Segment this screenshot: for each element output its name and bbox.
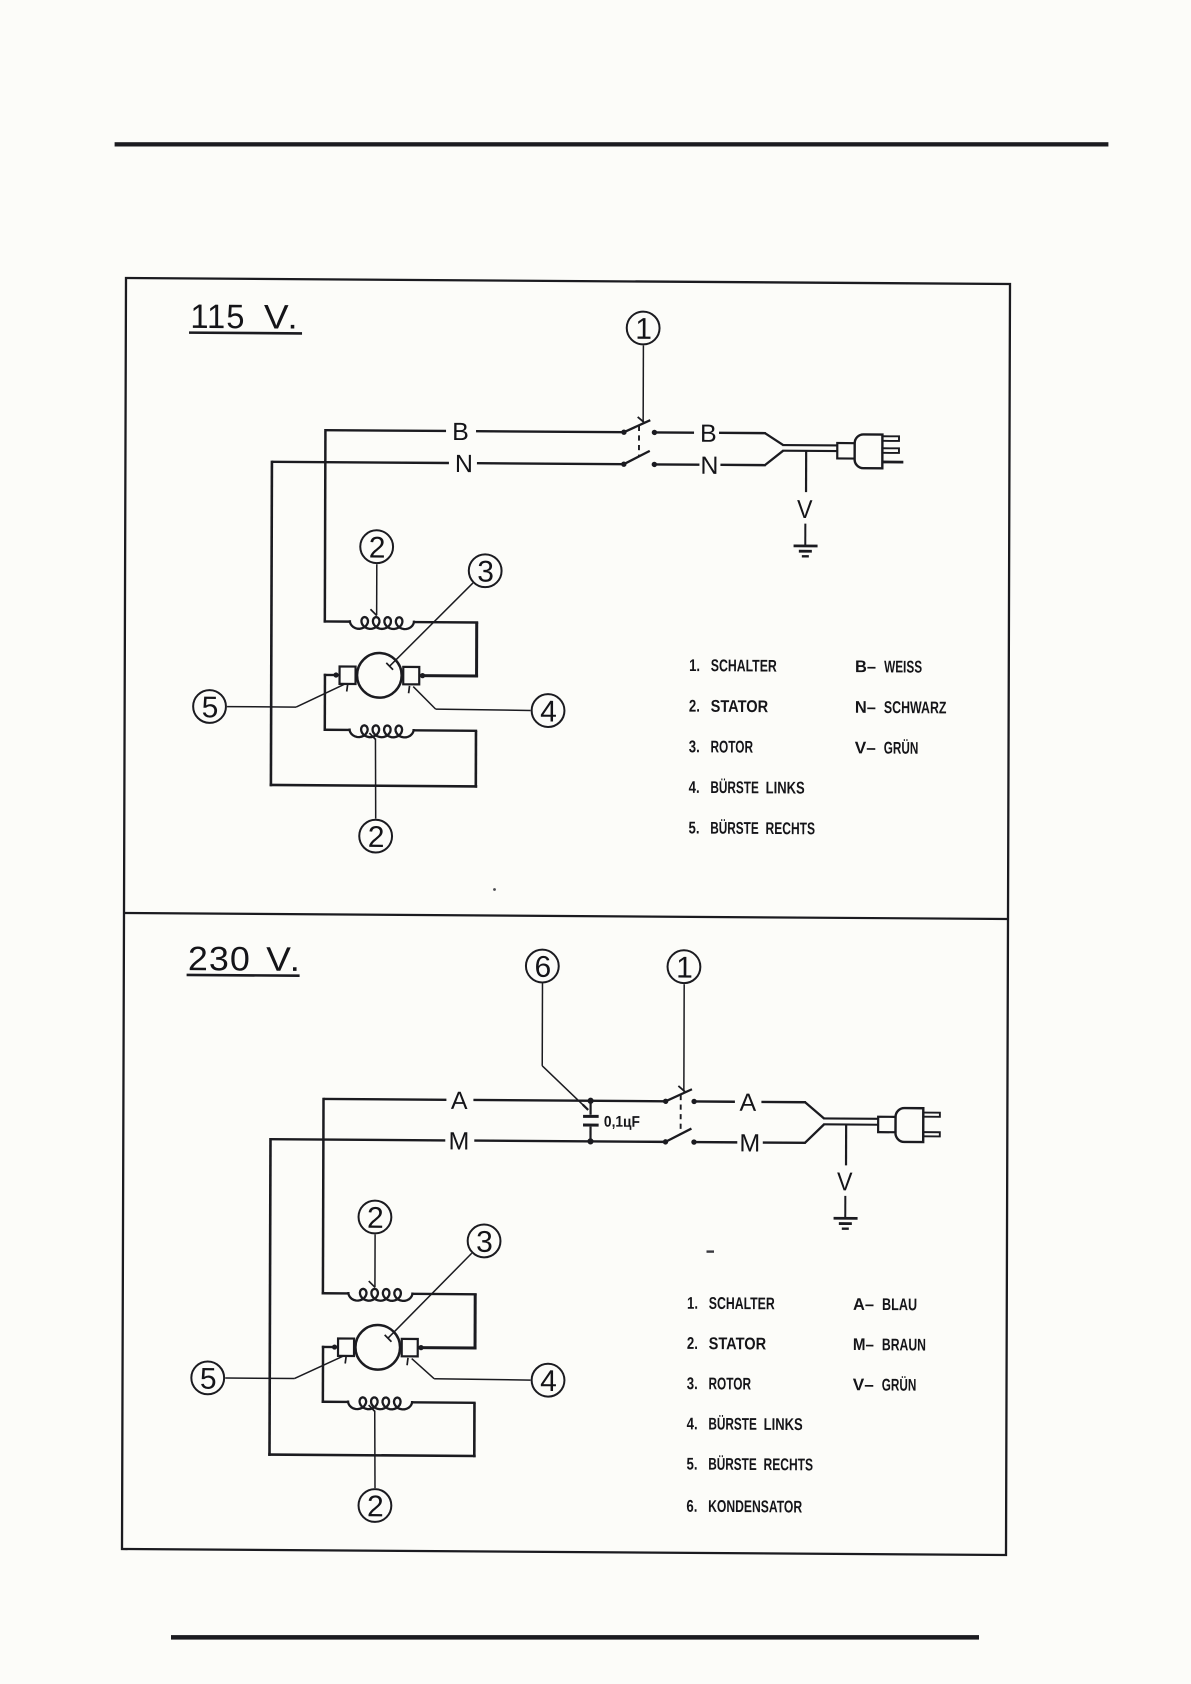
plug neck	[837, 443, 854, 459]
svg-text:N: N	[700, 452, 718, 480]
svg-text:RECHTS: RECHTS	[766, 819, 816, 838]
svg-text:2.: 2.	[689, 697, 700, 716]
right brush terminal node	[418, 1345, 423, 1350]
svg-text:4: 4	[540, 1365, 556, 1398]
brush right (4) box	[403, 667, 419, 685]
leader from callout 3 to rotor	[385, 1253, 472, 1343]
wire M row (right of switch)	[694, 1141, 737, 1144]
svg-text:2.: 2.	[687, 1334, 698, 1353]
wire bend down to cord	[765, 433, 783, 445]
svg-text:V–: V–	[855, 738, 876, 757]
svg-text:RECHTS: RECHTS	[764, 1455, 814, 1474]
svg-text:3.: 3.	[687, 1374, 698, 1393]
leader from callout 2 to lower coil	[369, 733, 376, 819]
svg-text:1.: 1.	[687, 1294, 698, 1313]
callout circle 2 (lower stator)	[359, 820, 392, 854]
mains cord (two parallel lines)	[823, 1118, 880, 1124]
capacitor C1 lead (bottom)	[589, 1127, 591, 1142]
switch S1 lower blade	[624, 451, 650, 465]
capacitor C1 plates	[583, 1115, 599, 1127]
svg-text:B–: B–	[855, 657, 876, 676]
svg-text:3: 3	[477, 555, 493, 588]
legend list (115 V.)	[689, 656, 816, 838]
svg-text:3: 3	[476, 1226, 492, 1259]
leader from callout 4 to right brush	[409, 686, 531, 711]
stator upper coil lead-out wire	[413, 621, 478, 624]
brush right (4) box	[402, 1339, 418, 1357]
svg-text:BÜRSTE: BÜRSTE	[708, 1455, 757, 1474]
switch S1 (Schalter) upper pole contacts	[621, 429, 657, 435]
wire vertical down to return wire	[473, 1403, 476, 1458]
leader from callout 2 to lower coil	[368, 1405, 375, 1488]
wire left brush to vertical	[324, 674, 340, 677]
wire vertical down to right brush	[474, 1294, 477, 1349]
scan artifact speck	[707, 1250, 715, 1252]
svg-text:6: 6	[534, 951, 550, 984]
return wire to left vertical	[270, 785, 478, 786]
leader from callout 4 to right brush	[407, 1358, 531, 1380]
wire B row (right of switch)	[654, 431, 694, 434]
svg-text:0,1цF: 0,1цF	[604, 1114, 640, 1131]
plug prong (bottom)	[923, 1132, 940, 1136]
wire bend up to cord	[805, 1124, 824, 1143]
stator winding upper coil L1	[350, 617, 414, 629]
capacitor C1 junction node on M wire	[587, 1138, 593, 1144]
svg-text:STATOR: STATOR	[709, 1334, 767, 1353]
svg-text:2: 2	[369, 531, 385, 564]
switch S1 lower pole contacts	[663, 1139, 697, 1145]
scan artifact dot	[493, 888, 496, 891]
wire N row (right of switch)	[654, 463, 699, 466]
legend wire colour codes	[855, 657, 947, 758]
callout circle 2 (lower stator)	[358, 1489, 391, 1523]
wire vertical down to right brush	[475, 622, 478, 677]
svg-text:2: 2	[368, 821, 384, 854]
title 115 V.	[189, 298, 302, 337]
callout circle 2 (upper stator)	[358, 1201, 391, 1235]
wire vertical from M row down to return	[269, 1138, 270, 1456]
callout circle 1 (Schalter)	[627, 312, 660, 346]
earth wire V drop from cord	[845, 1125, 847, 1166]
svg-text:5.: 5.	[687, 1455, 698, 1474]
svg-text:V–: V–	[853, 1375, 874, 1394]
ground symbol	[794, 546, 818, 557]
svg-text:1: 1	[635, 313, 651, 346]
brush left (5) box	[338, 1338, 354, 1356]
svg-text:B: B	[700, 420, 717, 448]
wire B row (left segment)	[325, 429, 446, 432]
callout circle 2 (upper stator)	[360, 530, 393, 564]
capacitor C1 lead (top)	[589, 1101, 591, 1115]
return wire to left vertical	[268, 1455, 476, 1456]
svg-text:N–: N–	[855, 698, 876, 717]
earth wire below V	[844, 1196, 846, 1218]
callout circle 5 (left brush)	[193, 690, 226, 724]
svg-text:BÜRSTE: BÜRSTE	[708, 1414, 757, 1433]
switch S1 upper blade	[624, 420, 650, 432]
wire vertical left brush down to stator coil 2	[324, 674, 327, 731]
svg-text:BLAU: BLAU	[882, 1295, 917, 1314]
stator winding upper (2) lead-in wire	[324, 620, 351, 623]
svg-text:5: 5	[202, 691, 218, 724]
wire A to cord	[761, 1101, 806, 1104]
wire M to cord	[763, 1141, 806, 1144]
ground symbol	[834, 1218, 858, 1229]
svg-text:WEISS: WEISS	[884, 657, 922, 676]
wire vertical from N row down to return	[271, 461, 272, 787]
wire vertical from A row down to stator coil	[322, 1098, 325, 1295]
stator winding lower coil L2	[348, 1397, 412, 1409]
wire right brush to vertical (thick)	[418, 1346, 477, 1349]
leader line from callout 1 to switch	[678, 984, 685, 1092]
svg-text:V.: V.	[266, 941, 302, 979]
svg-text:SCHALTER: SCHALTER	[709, 1294, 775, 1313]
svg-text:N: N	[455, 450, 473, 478]
svg-text:BÜRSTE: BÜRSTE	[710, 819, 759, 838]
plug prong (top)	[923, 1113, 940, 1117]
bottom horizontal rule	[171, 1635, 979, 1640]
stator lower coil lead-out wire	[413, 729, 478, 732]
svg-text:4.: 4.	[687, 1414, 698, 1433]
svg-text:M–: M–	[853, 1335, 874, 1354]
svg-text:ROTOR: ROTOR	[708, 1374, 751, 1393]
svg-text:GRÜN: GRÜN	[882, 1375, 917, 1394]
leader from callout 5 to left brush	[227, 683, 348, 707]
svg-text:6.: 6.	[686, 1497, 697, 1516]
wire N row (mid segment)	[477, 462, 624, 465]
svg-text:M: M	[739, 1129, 760, 1157]
switch S1 dashed mechanical link	[680, 1095, 682, 1134]
earth wire below V	[804, 524, 806, 546]
leader from callout 2 to upper coil	[369, 1234, 376, 1287]
svg-text:GRÜN: GRÜN	[884, 739, 919, 758]
wire M row (mid segment)	[474, 1141, 665, 1142]
left brush terminal node	[333, 672, 338, 677]
svg-text:SCHALTER: SCHALTER	[711, 656, 777, 675]
right brush terminal node	[420, 673, 425, 678]
svg-text:2: 2	[367, 1202, 383, 1235]
plug prong (top)	[882, 436, 899, 441]
leader from callout 3 to rotor	[386, 582, 473, 670]
plug neck	[878, 1117, 895, 1133]
svg-text:ROTOR: ROTOR	[711, 737, 754, 756]
svg-text:2: 2	[367, 1490, 383, 1523]
svg-text:LINKS: LINKS	[764, 1415, 803, 1434]
wire B row (mid segment)	[476, 431, 624, 432]
svg-text:A: A	[740, 1089, 757, 1117]
wire B to cord	[719, 432, 766, 435]
leader line from callout 6 to capacitor	[542, 984, 588, 1110]
legend list (230 V.)	[686, 1294, 813, 1517]
wire bend up to cord	[765, 451, 783, 466]
switch S1 lower blade	[665, 1128, 691, 1142]
wire A row (right of switch)	[694, 1100, 735, 1103]
stator winding lower coil L2	[350, 725, 414, 737]
svg-text:230: 230	[188, 940, 251, 978]
capacitor C1 junction node on A wire	[588, 1098, 594, 1104]
callout circle 6 (Kondensator)	[526, 950, 559, 984]
stator lower coil lead-out wire	[411, 1401, 476, 1404]
leader from callout 2 to upper coil	[370, 564, 377, 615]
callout circle 1 (Schalter)	[667, 950, 700, 984]
svg-text:B: B	[452, 418, 469, 446]
svg-text:KONDENSATOR: KONDENSATOR	[708, 1497, 802, 1517]
svg-text:4.: 4.	[689, 778, 700, 797]
drawing frame border	[122, 278, 1010, 1555]
svg-text:4: 4	[540, 695, 556, 728]
svg-text:1: 1	[676, 951, 692, 984]
wire vertical down to return wire	[475, 731, 478, 788]
left brush terminal node	[332, 1344, 337, 1349]
svg-text:LINKS: LINKS	[766, 778, 805, 797]
stator winding upper coil L1	[348, 1289, 412, 1301]
svg-text:STATOR: STATOR	[711, 697, 769, 716]
wire A row (left segment)	[324, 1098, 447, 1101]
switch S1 dashed mechanical link	[638, 426, 640, 457]
wire vertical left brush down to stator coil 2	[322, 1346, 325, 1403]
svg-text:5: 5	[200, 1363, 216, 1396]
leader from callout 5 to left brush	[225, 1355, 346, 1379]
earth wire V drop from cord	[805, 451, 807, 492]
plug body	[895, 1108, 923, 1142]
svg-text:BÜRSTE: BÜRSTE	[710, 778, 759, 797]
title 230 V.	[187, 940, 303, 979]
rotor (3) armature circle	[355, 1325, 400, 1370]
switch S1 upper blade	[666, 1089, 692, 1101]
callout circle 4 (right brush)	[532, 1364, 565, 1398]
switch S1 (Schalter) upper pole contacts	[663, 1099, 697, 1105]
top horizontal rule	[115, 142, 1109, 146]
stator winding lower (2) lead-in wire	[322, 1401, 349, 1404]
svg-text:V.: V.	[264, 298, 300, 336]
stator winding lower (2) lead-in wire	[324, 729, 351, 732]
wire A row (mid segment)	[473, 1100, 665, 1101]
svg-text:3.: 3.	[689, 737, 700, 756]
svg-text:A–: A–	[853, 1295, 874, 1314]
callout circle 3 (rotor)	[469, 554, 502, 588]
rotor (3) armature circle	[357, 653, 402, 698]
leader line from callout 1 to switch	[638, 345, 645, 422]
callout circle 5 (left brush)	[191, 1361, 224, 1395]
plug prong (middle)	[882, 448, 899, 453]
stator winding upper (2) lead-in wire	[322, 1292, 350, 1295]
wire N row (left segment)	[272, 462, 449, 463]
svg-text:1.: 1.	[689, 656, 700, 675]
svg-text:A: A	[451, 1087, 468, 1115]
svg-text:V: V	[797, 494, 813, 524]
svg-text:115: 115	[190, 298, 245, 336]
svg-text:M: M	[448, 1127, 469, 1155]
brush left (5) box	[340, 666, 356, 684]
callout circle 4 (right brush)	[532, 694, 565, 728]
stator upper coil lead-out wire	[411, 1293, 476, 1296]
wire vertical from B row down to stator coil	[324, 429, 327, 623]
callout circle 3 (rotor)	[468, 1224, 501, 1258]
plug body	[855, 434, 883, 468]
plug ground pin	[882, 461, 903, 464]
wire M row (left segment)	[270, 1139, 445, 1140]
svg-text:V: V	[837, 1166, 853, 1196]
mains cord (two parallel lines)	[782, 445, 839, 451]
switch S1 lower pole contacts	[621, 461, 657, 467]
svg-text:BRAUN: BRAUN	[882, 1335, 926, 1354]
wire right brush to vertical (thick)	[419, 674, 478, 677]
frame divider line	[124, 913, 1008, 919]
wire N to cord	[720, 464, 765, 467]
wire left brush to vertical	[322, 1346, 338, 1349]
wire bend down to cord	[805, 1102, 824, 1118]
svg-text:5.: 5.	[689, 818, 700, 837]
legend wire colour codes	[853, 1295, 926, 1395]
svg-text:SCHWARZ: SCHWARZ	[884, 698, 947, 717]
